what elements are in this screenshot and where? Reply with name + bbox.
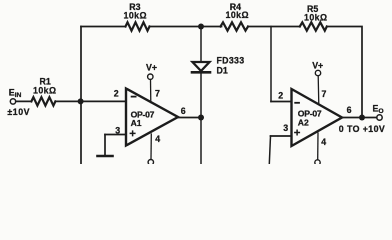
svg-text:±10V: ±10V [7, 107, 30, 117]
svg-text:4: 4 [321, 137, 326, 147]
ground [98, 155, 113, 158]
A1 plus sign [130, 130, 136, 136]
terminal: A2 V- circle (clipped at bottom) [315, 160, 320, 165]
terminal: Eo circle [377, 115, 382, 120]
wire: A2 pin 2 input [271, 101, 292, 103]
diode D1 cathode bar [192, 71, 210, 74]
op-amp U A2 triangle [292, 89, 343, 146]
wire: A1 pin 4 supply lead [150, 134, 152, 159]
terminal: Ein circle [10, 99, 15, 104]
svg-text:V+: V+ [146, 63, 157, 73]
label R3 value [124, 2, 148, 20]
op-amp U A1 triangle [126, 89, 178, 146]
svg-text:7: 7 [322, 89, 327, 99]
label Ein [7, 87, 30, 117]
svg-text:0 TO +10V: 0 TO +10V [339, 124, 385, 134]
wire: pin3 drop to ground [104, 135, 106, 155]
wire: diode branch vertical upper (node to D1 anode) [200, 27, 202, 62]
wire: top rail between R4 and R5 [248, 26, 300, 28]
resistor R5 zigzag [300, 22, 327, 30]
svg-text:2: 2 [114, 88, 119, 98]
diode D1 triangle [193, 62, 210, 71]
terminal: A2 V+ circle [315, 70, 320, 75]
svg-text:A2: A2 [298, 118, 309, 128]
svg-text:10kΩ: 10kΩ [124, 11, 148, 21]
wire: A2 output pin 6 to Eo terminal [342, 117, 377, 119]
svg-text:10kΩ: 10kΩ [304, 13, 328, 23]
wire: A1 pin 3 input [105, 134, 126, 136]
resistor R1 zigzag [31, 97, 55, 105]
label diode D1 FD333 [217, 56, 245, 76]
A2 minus sign [294, 102, 300, 104]
svg-text:4: 4 [155, 134, 160, 144]
svg-text:D1: D1 [217, 66, 228, 76]
A2 plus sign [294, 130, 300, 136]
svg-text:V+: V+ [312, 60, 323, 70]
op-amp A1 internal labels [131, 109, 155, 128]
wire: top rail from R5 to right corner and down to output node [327, 27, 362, 118]
svg-text:6: 6 [181, 106, 186, 116]
svg-text:3: 3 [283, 123, 288, 133]
wire: A1 output pin 6 to diode node [178, 117, 201, 119]
label R1 value [33, 76, 57, 95]
op-amp A2 internal labels [298, 109, 322, 128]
wire: A2 pin 3 input [271, 135, 292, 137]
wire: top rail between R3 and R4 [150, 26, 222, 28]
wire: left vertical from top rail down past input node to bottom edge [80, 27, 82, 165]
wire: A1 pin 7 supply lead [150, 80, 152, 103]
A1 minus sign [131, 96, 137, 98]
svg-text:A1: A1 [131, 118, 142, 128]
wire: A2 pin 2 vertical from top rail [270, 27, 272, 102]
label R4 value [226, 2, 250, 20]
svg-text:FD333: FD333 [217, 56, 245, 66]
wire: top feedback rail left segment [81, 26, 126, 28]
svg-text:3: 3 [115, 126, 120, 136]
wire: diode cathode down through output node to bottom edge [200, 72, 202, 164]
node: summing junction dot [78, 98, 84, 104]
label R5 value [304, 4, 328, 22]
node: top rail / diode branch dot [198, 24, 204, 30]
svg-text:2: 2 [278, 90, 283, 100]
wire: R1 to summing node A and on to A1 pin 2 [55, 100, 126, 102]
svg-text:6: 6 [347, 105, 352, 115]
terminal: A1 V- circle (clipped at bottom) [148, 160, 153, 165]
svg-text:10kΩ: 10kΩ [226, 10, 250, 20]
wire: A2 pin 4 supply lead [317, 133, 319, 160]
node: output feedback dot [359, 115, 365, 121]
svg-text:7: 7 [155, 88, 160, 98]
svg-text:10kΩ: 10kΩ [33, 86, 57, 96]
wire: A2 pin 3 drop to bottom edge [269, 136, 270, 164]
node: A1 output / diode cathode dot [198, 115, 204, 121]
terminal: A1 V+ circle [148, 74, 153, 79]
wire: A2 pin 7 supply lead [317, 76, 320, 105]
resistor R3 zigzag [126, 22, 150, 30]
wire: Ein terminal to R1 [16, 100, 32, 102]
resistor R4 zigzag [221, 22, 249, 30]
